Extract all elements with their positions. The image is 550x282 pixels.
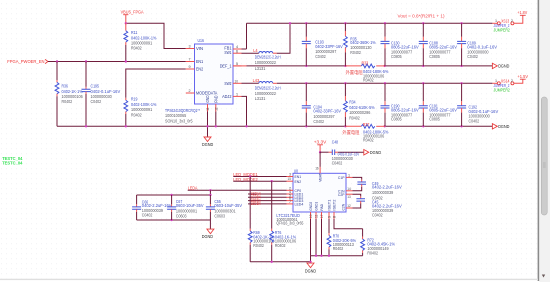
wire cap bank top rail (137, 190, 211, 195)
svg-text:2: 2 (511, 79, 513, 83)
svg-text:R0402: R0402 (350, 50, 361, 55)
resistor R34 (344, 83, 375, 126)
wire GND2 drop (310, 219, 312, 256)
wire EN1 net (48, 61, 186, 63)
svg-text:TESTC_04: TESTC_04 (2, 161, 23, 166)
svg-text:R0402: R0402 (131, 112, 142, 117)
op-amp U8 LED driver LTC3217 (276, 168, 346, 225)
svg-text:DEM2812C-2.2uH: DEM2812C-2.2uH (255, 55, 281, 60)
wire cap bank bottom rail (137, 219, 211, 221)
pin 4 FB1 (233, 48, 242, 50)
svg-text:C0402: C0402 (467, 54, 478, 59)
wire LED4 net (248, 203, 287, 205)
svg-text:C2N: C2N (340, 204, 345, 211)
inductor L43 (253, 78, 281, 101)
svg-text:DGND: DGND (202, 142, 214, 147)
wire L4 to +1.8V rail (277, 23, 290, 53)
svg-text:16: 16 (315, 167, 318, 171)
pin 15 EN2 (287, 180, 294, 182)
capacitor C190 (381, 83, 419, 126)
svg-text:C0805: C0805 (391, 54, 402, 59)
svg-text:DGND: DGND (305, 268, 317, 273)
resistor R70 (327, 219, 356, 256)
svg-text:PAD: PAD (319, 204, 324, 211)
svg-text:5: 5 (236, 62, 238, 66)
svg-text:0402-33PF-16V: 0402-33PF-16V (315, 44, 343, 49)
wire DGND drop bottom (310, 256, 312, 263)
svg-text:3: 3 (189, 45, 191, 49)
svg-text:1000000039: 1000000039 (372, 190, 394, 195)
pin 16 VBAT top (319, 167, 321, 173)
power port +1.8V (517, 10, 527, 16)
capacitor C189 (457, 23, 497, 66)
resistor R11 (124, 23, 157, 61)
svg-text:C0402: C0402 (372, 213, 383, 218)
inductor L4 (253, 48, 280, 71)
svg-text:L4: L4 (253, 48, 258, 53)
svg-text:R0402: R0402 (363, 138, 374, 143)
capacitor C193 (302, 23, 343, 66)
svg-text:VIN: VIN (196, 46, 203, 51)
svg-text:15: 15 (288, 177, 291, 181)
svg-text:C2P: C2P (338, 192, 345, 197)
wire LEDA to CP0 (188, 189, 287, 191)
power port +3.3V (314, 139, 327, 152)
svg-text:1000000297: 1000000297 (313, 114, 335, 119)
pin 10 SW2 (233, 82, 242, 84)
svg-text:外置电阻: 外置电阻 (342, 129, 360, 136)
svg-text:0402-610K-5%: 0402-610K-5% (349, 105, 375, 110)
svg-text:3: 3 (289, 173, 291, 177)
svg-text:12: 12 (347, 204, 350, 208)
svg-text:DGND: DGND (498, 124, 510, 129)
svg-text:R0402: R0402 (253, 243, 264, 248)
svg-text:DGND: DGND (202, 234, 214, 239)
capacitor C55 (206, 195, 242, 220)
wire GND1 drop (315, 219, 317, 256)
jumper XS13 (492, 15, 522, 32)
svg-text:U8: U8 (294, 168, 299, 173)
resistor R69 (248, 177, 275, 262)
pin 11 GND bottom (207, 104, 209, 112)
wire VBUS to VIN (126, 23, 186, 48)
svg-text:7: 7 (189, 58, 191, 62)
wire ADJ2 to gnd rail (242, 96, 247, 126)
ground DGND right of divider rail (492, 63, 510, 68)
svg-text:L3131: L3131 (255, 96, 266, 101)
pin 1 ADJ2 (233, 95, 242, 97)
wire GND to DGND (207, 112, 209, 138)
pin 5 DEF_1 (233, 65, 242, 67)
svg-text:C0402: C0402 (332, 161, 343, 166)
jumper XS14 (492, 79, 522, 93)
pin 12 C2N (346, 207, 353, 209)
svg-text:R0402: R0402 (363, 78, 374, 83)
ground DGND bottom (305, 263, 317, 273)
svg-text:13: 13 (347, 195, 350, 199)
svg-text:LEDD4: LEDD4 (251, 201, 261, 206)
port FPGA_PWOER_EN (7, 59, 48, 65)
wire LED2 net (248, 196, 287, 198)
wire PAD drop (321, 219, 323, 256)
pin 14 C1N (346, 190, 353, 192)
svg-text:C0603: C0603 (214, 213, 225, 218)
capacitor C191 (419, 83, 457, 126)
ground DGND under cap bank (202, 229, 214, 239)
svg-text:0402-2.2uF-16V: 0402-2.2uF-16V (372, 185, 402, 190)
wire R69/R76 gnd rail (250, 261, 310, 263)
power port +1.5V (517, 74, 528, 80)
svg-text:C1P: C1P (338, 175, 345, 180)
svg-text:SON10_3x3_0r5: SON10_3x3_0r5 (165, 118, 193, 123)
svg-text:C0402: C0402 (142, 213, 153, 218)
svg-text:PAD: PAD (214, 96, 219, 103)
ground DGND under U16 (202, 137, 214, 147)
wire cap bank to DGND (209, 220, 211, 229)
svg-text:QFN16_3x3_0r65: QFN16_3x3_0r65 (276, 221, 303, 226)
capacitor C66 (132, 195, 172, 220)
SECTION-BOTTOM (2, 139, 402, 273)
svg-text:R34: R34 (349, 100, 356, 105)
pin 3 EN1 (287, 176, 294, 178)
svg-text:R0402: R0402 (367, 250, 378, 255)
svg-text:EN2: EN2 (196, 67, 204, 72)
svg-text:R37: R37 (363, 122, 370, 127)
svg-text:R0402: R0402 (349, 115, 360, 120)
pin 9 EN2 (186, 68, 195, 70)
svg-text:JUMPER2: JUMPER2 (494, 28, 511, 33)
svg-text:C0402: C0402 (315, 54, 326, 59)
svg-text:外置电阻: 外置电阻 (346, 69, 364, 76)
pin 6 LED3 (287, 200, 294, 202)
capacitor C67 (167, 195, 204, 220)
wire SW2 to L43 (242, 82, 259, 84)
svg-text:C0805: C0805 (391, 117, 402, 122)
wire LED1 net (248, 193, 287, 195)
svg-text:7: 7 (289, 200, 291, 204)
svg-text:C0402: C0402 (91, 99, 102, 104)
capacitor C48 (320, 140, 364, 166)
pin 7 EN1 (186, 61, 195, 63)
svg-text:2: 2 (511, 19, 513, 23)
svg-text:11: 11 (206, 107, 210, 110)
svg-text:DGND: DGND (498, 64, 510, 69)
capacitor C194 (302, 83, 341, 126)
svg-text:DGND: DGND (370, 150, 382, 155)
ground DGND right of C48 (364, 150, 382, 156)
svg-text:C0402: C0402 (469, 118, 480, 123)
svg-text:GND2: GND2 (308, 201, 313, 210)
svg-text:14: 14 (347, 187, 350, 191)
capacitor C130 (381, 23, 419, 66)
svg-text:JUMPER2: JUMPER2 (494, 88, 511, 93)
wire +1.5V output rail ch2 (277, 82, 493, 84)
svg-text:VBAT: VBAT (318, 173, 323, 182)
resistor R35 (344, 23, 376, 66)
svg-text:GND1: GND1 (314, 201, 319, 210)
resistor R19 (124, 97, 157, 127)
svg-text:12: 12 (214, 107, 218, 110)
svg-text:1: 1 (348, 173, 350, 177)
wire ISET2 jog (334, 219, 363, 229)
svg-text:C48: C48 (332, 140, 339, 145)
resistor R36 (55, 62, 83, 127)
wire PAD to gnd rail (215, 112, 217, 127)
svg-text:10: 10 (309, 215, 313, 218)
svg-text:SW2: SW2 (224, 81, 232, 86)
pin 2 CP0 (287, 189, 294, 191)
pin 5 LED2 (287, 196, 294, 198)
svg-text:6: 6 (236, 49, 238, 53)
power port VBUS_FPGA (121, 9, 145, 23)
resistor R33 series (345, 61, 388, 83)
svg-text:MODE/DATA: MODE/DATA (196, 91, 217, 96)
svg-text:ADJ2: ADJ2 (222, 94, 232, 99)
svg-text:LED4: LED4 (295, 202, 304, 207)
wire LED3 net (248, 200, 287, 202)
svg-text:9: 9 (327, 216, 331, 218)
svg-text:EN1: EN1 (196, 59, 204, 64)
svg-text:C0402: C0402 (313, 119, 324, 124)
svg-text:C0805: C0805 (429, 117, 440, 122)
svg-text:9: 9 (189, 65, 191, 69)
svg-text:SW1: SW1 (224, 50, 232, 55)
svg-text:R0402: R0402 (333, 246, 344, 251)
pin 9 ISET1 bottom (328, 212, 330, 219)
pin 8 ISET2 bottom (333, 212, 335, 219)
wire bottom gnd rail U8 (311, 255, 363, 257)
node junction VBUS/R11 (125, 22, 127, 24)
svg-text:C0603: C0603 (176, 213, 187, 218)
capacitor C192 (457, 83, 498, 126)
resistor R72 (361, 229, 395, 256)
resistor R76 (270, 181, 297, 262)
ground DGND right end of gnd rail (492, 124, 510, 130)
resistor R37 series (342, 122, 388, 143)
svg-text:2: 2 (189, 89, 191, 93)
svg-text:C0805: C0805 (429, 54, 440, 59)
capacitor C195 (82, 62, 121, 127)
SECTION-TOP (7, 9, 528, 147)
svg-text:0402-33PF-16V: 0402-33PF-16V (313, 108, 341, 113)
pin 12 PAD bottom (215, 104, 217, 112)
wire DEF_1/FB1 divider rail (233, 65, 247, 67)
svg-text:R33: R33 (362, 61, 369, 66)
capacitor C45 flying (353, 194, 402, 217)
capacitor C49 flying (353, 177, 402, 200)
node junction +3.3V/C48/VBAT (319, 151, 321, 153)
svg-text:4: 4 (236, 45, 238, 49)
svg-text:1: 1 (236, 92, 238, 96)
svg-text:R0402: R0402 (62, 99, 73, 104)
wire main ground rail (57, 125, 345, 127)
svg-text:U16: U16 (198, 38, 205, 43)
pin 1 C1P (346, 176, 353, 178)
wire +1.8V output rail (247, 22, 493, 24)
svg-text:R0402: R0402 (131, 46, 142, 51)
pin 13 C2P (346, 193, 353, 195)
svg-text:L3131: L3131 (255, 66, 266, 71)
svg-text:ISET2: ISET2 (332, 199, 337, 211)
op-amp U16 regulator TPS62410 (165, 38, 233, 123)
pin 7 LED4 (287, 203, 294, 205)
svg-text:GND: GND (205, 96, 210, 103)
pin 2 MODE/DATA (186, 92, 195, 94)
svg-text:17: 17 (320, 215, 324, 218)
pin 10 GND2 bottom (310, 212, 312, 219)
capacitor C188 (419, 23, 457, 66)
wire FB1 riser (242, 23, 247, 49)
svg-text:R0402: R0402 (275, 243, 286, 248)
wire LED_MODE1 to EN1 (233, 176, 286, 178)
wire LED_MODE2 to EN2 (233, 180, 286, 182)
wire EN2 net (126, 69, 186, 98)
svg-text:11: 11 (314, 215, 318, 218)
pin 11 GND1 bottom (315, 212, 317, 219)
svg-text:8: 8 (332, 216, 336, 218)
pin 17 PAD bottom (321, 212, 323, 219)
wire VBAT riser (319, 152, 321, 167)
wire SW1 to L4 (242, 52, 259, 54)
svg-text:Vout = 0.6*(R2/R1 + 1): Vout = 0.6*(R2/R1 + 1) (398, 14, 446, 19)
pin 3 VIN (186, 48, 195, 50)
svg-text:DEF_1: DEF_1 (220, 64, 232, 69)
pin 6 SW1 (233, 52, 242, 54)
svg-text:EN2: EN2 (295, 179, 302, 184)
svg-text:FPGA_PWOER_EN: FPGA_PWOER_EN (7, 59, 45, 65)
svg-text:10: 10 (235, 79, 238, 83)
pin 4 LED1 (287, 193, 294, 195)
svg-text:1000000022: 1000000022 (255, 60, 277, 65)
